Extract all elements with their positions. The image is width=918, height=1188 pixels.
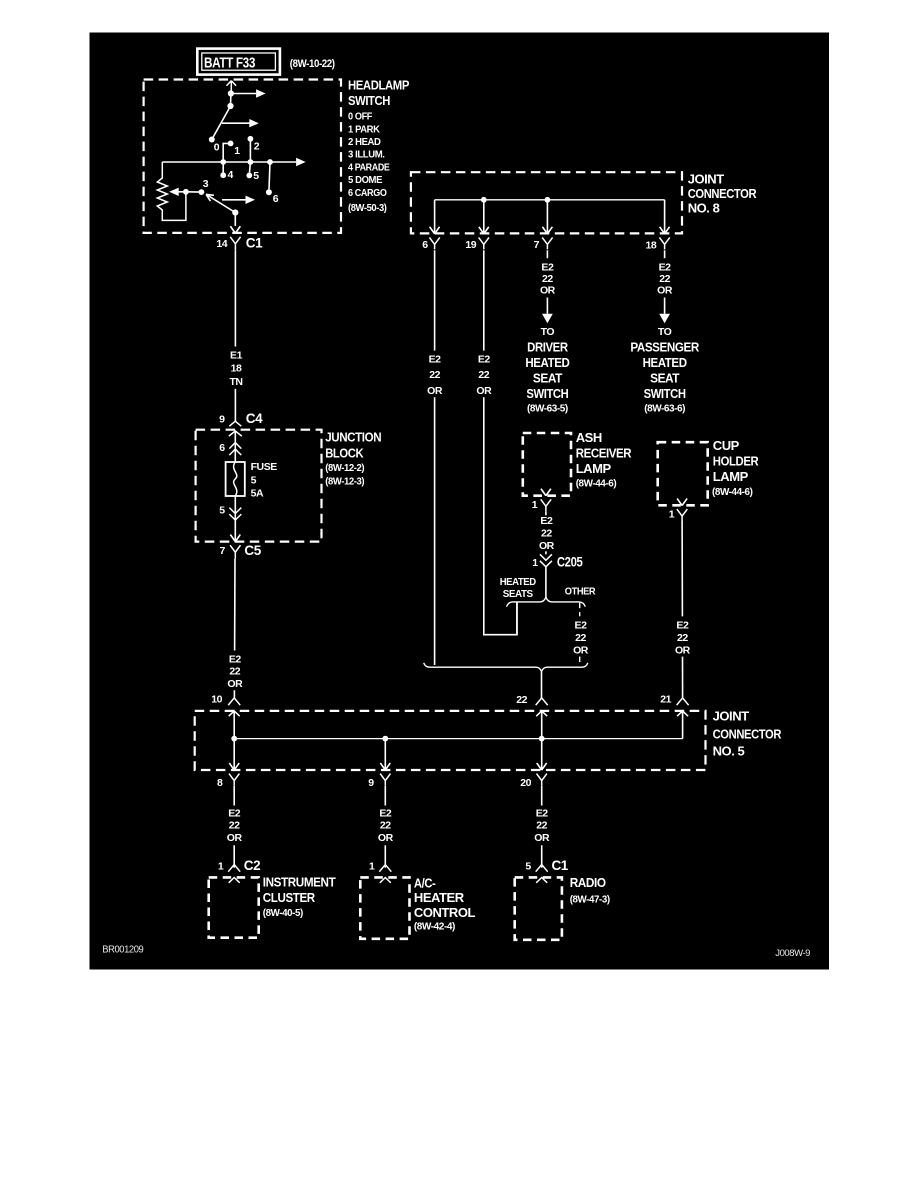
svg-text:INSTRUMENT: INSTRUMENT	[263, 875, 336, 890]
svg-text:10: 10	[211, 694, 222, 706]
svg-text:OR: OR	[476, 385, 492, 397]
svg-text:TO: TO	[541, 326, 555, 338]
svg-text:(8W-44-6): (8W-44-6)	[576, 477, 617, 489]
svg-text:22: 22	[542, 273, 553, 285]
wire E2 22 OR from JC8 toward passenger heated seat switch	[664, 250, 666, 258]
contact 3	[199, 189, 205, 195]
wire to component connector	[384, 845, 386, 867]
joint connector no.8 dashed box	[411, 172, 682, 233]
svg-text:CLUSTER: CLUSTER	[263, 890, 316, 905]
svg-text:HOLDER: HOLDER	[713, 454, 759, 469]
wire: switch output down to pin 14	[234, 213, 236, 227]
contact 6	[269, 162, 270, 189]
svg-text:E2: E2	[379, 807, 392, 819]
ash receiver lamp dashed box	[523, 433, 571, 496]
wiper pivot node	[227, 103, 233, 109]
svg-text:1 PARK: 1 PARK	[348, 123, 380, 135]
exit pin 19 of JC8	[479, 227, 489, 234]
exit pin 6 of JC8	[430, 227, 440, 234]
headlamp switch dashed box	[144, 80, 341, 233]
svg-text:22: 22	[575, 632, 586, 644]
collector brace to JC5 pin 22	[424, 663, 588, 672]
cup holder lamp dashed box	[658, 442, 708, 505]
svg-text:22: 22	[429, 369, 440, 381]
entry arrow into junction block	[229, 431, 242, 436]
svg-text:PASSENGER: PASSENGER	[630, 340, 699, 354]
svg-text:TN: TN	[229, 376, 242, 388]
svg-text:(8W-63-5): (8W-63-5)	[527, 403, 568, 414]
svg-text:OR: OR	[573, 644, 589, 656]
svg-text:BLOCK: BLOCK	[325, 445, 364, 460]
radio labels	[570, 875, 610, 906]
svg-text:C2: C2	[244, 858, 260, 873]
svg-text:C1: C1	[246, 236, 263, 251]
exit pin 8 of JC5	[229, 763, 239, 770]
radio dashed box	[515, 877, 562, 939]
svg-text:1: 1	[669, 509, 675, 521]
svg-text:RADIO: RADIO	[570, 875, 606, 890]
wire to component connector	[233, 845, 235, 867]
svg-text:CONNECTOR: CONNECTOR	[713, 726, 782, 741]
component connector pin 1	[228, 865, 240, 883]
svg-text:7: 7	[534, 239, 540, 251]
arrow to driver heated seat switch	[542, 314, 553, 324]
svg-text:6: 6	[219, 442, 225, 454]
svg-text:20: 20	[520, 777, 531, 789]
svg-text:3: 3	[203, 178, 209, 190]
svg-text:(8W-50-3): (8W-50-3)	[348, 202, 387, 214]
svg-text:9: 9	[219, 414, 225, 426]
svg-text:HEATER: HEATER	[414, 890, 465, 905]
svg-text:(8W-63-6): (8W-63-6)	[644, 403, 685, 414]
switch common node B+	[228, 90, 234, 96]
svg-text:SWITCH: SWITCH	[644, 387, 686, 401]
svg-text:E2: E2	[659, 262, 672, 274]
svg-text:1: 1	[532, 499, 538, 511]
svg-text:CUP: CUP	[713, 438, 740, 453]
wire inside JC5 left	[233, 711, 235, 769]
svg-text:LAMP: LAMP	[576, 461, 612, 476]
svg-text:5: 5	[219, 505, 225, 517]
svg-text:(8W-40-5): (8W-40-5)	[263, 907, 303, 919]
wire E2 22 OR from ash receiver lamp	[545, 511, 547, 515]
svg-text:22: 22	[541, 527, 552, 539]
wire continues to C4	[234, 389, 236, 422]
a/c heater control dashed box	[360, 877, 409, 938]
exit pin 9 of JC5	[381, 763, 391, 770]
cup holder lamp labels	[712, 438, 759, 498]
svg-text:OTHER: OTHER	[565, 585, 596, 597]
svg-text:(8W-42-4): (8W-42-4)	[414, 921, 455, 933]
svg-text:OR: OR	[657, 285, 673, 297]
connector C1 pin 14	[230, 226, 240, 250]
svg-text:8: 8	[217, 777, 223, 789]
svg-text:E2: E2	[676, 619, 689, 631]
svg-text:2 HEAD: 2 HEAD	[348, 136, 381, 148]
svg-text:LAMP: LAMP	[713, 469, 749, 484]
switch lower wiper arm with arrowhead toward contact 3	[206, 194, 235, 212]
connector C205 pin 1	[540, 554, 552, 567]
svg-text:22: 22	[478, 369, 489, 381]
arrow: feed branch to right	[231, 93, 256, 95]
arrow: wiper travel direction lower	[222, 199, 246, 201]
svg-text:E2: E2	[541, 262, 554, 274]
svg-text:1: 1	[234, 145, 240, 157]
svg-text:1: 1	[218, 861, 224, 873]
svg-text:5: 5	[525, 861, 531, 873]
junction dots on main bus	[220, 159, 226, 165]
svg-text:J008W-9: J008W-9	[775, 948, 810, 959]
phantom wire OTHER branch (dashed)	[579, 603, 581, 617]
exit pin 20 of JC5	[537, 763, 547, 770]
svg-text:18: 18	[231, 363, 242, 375]
wire E2 22 OR from cup holder lamp	[681, 521, 683, 616]
svg-text:HEATED: HEATED	[525, 356, 569, 370]
svg-text:OR: OR	[534, 832, 550, 844]
svg-text:22: 22	[229, 820, 240, 832]
connector C5 pin 7	[230, 535, 240, 559]
svg-text:18: 18	[646, 239, 657, 251]
svg-text:22: 22	[380, 820, 391, 832]
JC5 vertical pin 21 branch	[682, 711, 684, 739]
contact 5	[249, 162, 252, 172]
wire E2 22 OR below JC5 at x=541.7	[541, 786, 543, 806]
JC8 vertical drop at x=483.8	[483, 200, 485, 234]
svg-text:5A: 5A	[251, 487, 264, 499]
arrow to passenger heated seat switch	[659, 314, 670, 324]
instrument cluster labels	[263, 875, 336, 920]
wire E2 22 OR from JC8 pin 19	[483, 250, 485, 350]
fuse feed BATT F33 box	[197, 49, 280, 75]
svg-text:14: 14	[216, 238, 227, 250]
component connector pin 5	[536, 865, 548, 883]
contact 2 and wire to main bus	[248, 136, 254, 142]
svg-text:HEADLAMP: HEADLAMP	[348, 78, 410, 93]
svg-text:E2: E2	[478, 354, 491, 366]
exit pin 7 of JC8	[543, 227, 553, 234]
svg-text:5 DOME: 5 DOME	[348, 174, 382, 186]
svg-text:SEAT: SEAT	[533, 371, 563, 385]
svg-text:NO. 5: NO. 5	[713, 744, 745, 759]
contact 0	[209, 137, 215, 143]
a/c heater control labels	[414, 875, 476, 932]
wire: wiper node to contact 3	[186, 191, 202, 193]
svg-text:(8W-12-2): (8W-12-2)	[325, 462, 364, 474]
svg-text:OR: OR	[227, 832, 243, 844]
svg-text:5: 5	[253, 170, 259, 182]
exit pin 18 of JC8	[660, 227, 670, 234]
fuse 5 5A	[226, 462, 245, 496]
instrument cluster dashed box	[209, 877, 259, 937]
junction block pin 5	[229, 508, 241, 520]
svg-text:C205: C205	[557, 555, 583, 570]
svg-text:HEATED: HEATED	[500, 576, 537, 588]
svg-text:0 OFF: 0 OFF	[348, 111, 373, 123]
splice brace heated seats / other	[507, 597, 586, 607]
svg-text:4 PARADE: 4 PARADE	[348, 161, 390, 173]
svg-text:(8W-47-3): (8W-47-3)	[570, 893, 610, 905]
JC8 internal bus	[435, 199, 665, 201]
JC8 vertical drop at x=547.4	[546, 200, 548, 234]
svg-text:22: 22	[659, 273, 670, 285]
switch output node	[232, 209, 238, 215]
wire heated-seats branch	[516, 603, 518, 635]
svg-text:19: 19	[465, 239, 476, 251]
contact 4	[222, 162, 224, 172]
svg-text:HEATED: HEATED	[643, 356, 687, 370]
svg-text:SWITCH: SWITCH	[526, 387, 568, 401]
svg-text:OR: OR	[378, 832, 394, 844]
svg-text:BR001209: BR001209	[102, 945, 144, 956]
svg-text:(8W-10-22): (8W-10-22)	[290, 58, 335, 70]
svg-text:E2: E2	[540, 515, 553, 527]
svg-text:NO. 8: NO. 8	[688, 200, 720, 215]
junction block labels	[325, 429, 381, 487]
svg-text:3 ILLUM.: 3 ILLUM.	[348, 149, 385, 161]
wire E2 22 OR below JC5 at x=385.3	[384, 786, 386, 806]
svg-text:CONTROL: CONTROL	[414, 905, 476, 920]
svg-text:FUSE: FUSE	[251, 461, 278, 473]
svg-text:SEATS: SEATS	[503, 588, 533, 600]
svg-text:6 CARGO: 6 CARGO	[348, 187, 387, 199]
JC5 internal bus	[234, 738, 682, 740]
svg-text:C1: C1	[552, 858, 569, 873]
svg-text:22: 22	[677, 632, 688, 644]
svg-text:SEAT: SEAT	[650, 371, 680, 385]
svg-text:CONNECTOR: CONNECTOR	[688, 186, 757, 201]
wire into fuse	[234, 431, 236, 462]
JC5 vertical pin 9 branch	[384, 739, 386, 770]
svg-text:C4: C4	[246, 411, 263, 426]
wire E2 22 OR from JC8 pin 6 (long drop)	[434, 250, 436, 350]
svg-text:21: 21	[660, 694, 671, 706]
switch wiper arm (to position 0)	[212, 106, 231, 140]
wire from fuse to C5	[234, 496, 236, 542]
svg-text:22: 22	[516, 694, 527, 706]
contact 1 and wire to main bus	[228, 141, 234, 147]
svg-text:22: 22	[536, 820, 547, 832]
wire E1 18 TN from switch to junction block	[234, 250, 236, 346]
svg-text:E1: E1	[230, 350, 243, 362]
svg-text:1: 1	[532, 557, 538, 569]
svg-text:SWITCH: SWITCH	[348, 93, 390, 108]
arrow: wiper travel direction upper	[222, 122, 250, 124]
entry pin 10 of joint connector no.5	[228, 698, 240, 716]
svg-text:22: 22	[229, 666, 240, 678]
junction block pin 6	[229, 443, 241, 456]
svg-text:OR: OR	[540, 285, 556, 297]
wire C205 to splice	[545, 567, 547, 597]
svg-text:DRIVER: DRIVER	[527, 340, 568, 354]
diagram background panel	[90, 33, 830, 970]
wire: feed from BATT into switch, arrowhead up	[227, 81, 237, 94]
wire to component connector	[541, 845, 543, 867]
arrow: rheostat wiper pointing left	[176, 191, 186, 193]
svg-text:E2: E2	[229, 653, 242, 665]
wire splice to JC5 pin 22	[541, 672, 543, 698]
junction dots on JC8 bus	[481, 197, 487, 203]
svg-text:JUNCTION: JUNCTION	[325, 429, 381, 444]
svg-text:E2: E2	[536, 807, 549, 819]
connector C4 pin 9	[229, 421, 241, 426]
svg-text:A/C-: A/C-	[414, 875, 436, 890]
svg-text:TO: TO	[658, 326, 672, 338]
svg-text:0: 0	[214, 142, 220, 154]
JC8 vertical drop at x=664.6	[664, 200, 666, 234]
wire E2 22 OR below JC5 at x=234.2	[233, 786, 235, 806]
component connector pin 1	[379, 865, 391, 883]
fuse value labels	[251, 461, 278, 499]
wire pin 19 down and over to heated-seats splice	[484, 397, 517, 634]
switch main bus with output arrow	[162, 161, 296, 163]
wire resumes to joint connector 5	[233, 690, 235, 698]
svg-text:OR: OR	[539, 540, 555, 552]
svg-text:E2: E2	[429, 354, 442, 366]
svg-text:C5: C5	[244, 543, 261, 558]
svg-text:ASH: ASH	[576, 430, 602, 445]
svg-text:9: 9	[368, 777, 374, 789]
joint connector no.5 dashed box	[195, 711, 706, 770]
headlamp switch name and position legend	[348, 78, 410, 214]
svg-text:1: 1	[369, 861, 375, 873]
svg-text:4: 4	[228, 169, 234, 181]
svg-text:E2: E2	[228, 807, 241, 819]
svg-text:(8W-44-6): (8W-44-6)	[712, 486, 753, 498]
svg-text:6: 6	[273, 193, 279, 205]
svg-text:6: 6	[422, 239, 428, 251]
svg-text:(8W-12-3): (8W-12-3)	[325, 475, 364, 487]
svg-text:OR: OR	[427, 385, 443, 397]
joint connector no.8 labels	[688, 171, 757, 215]
svg-text:OR: OR	[675, 644, 691, 656]
svg-text:5: 5	[251, 475, 257, 487]
destination label DRIVER heated seat switch	[525, 326, 569, 414]
svg-text:JOINT: JOINT	[713, 709, 750, 724]
entry pin 21 of JC5	[677, 698, 689, 716]
svg-text:E2: E2	[575, 619, 588, 631]
JC8 vertical drop at x=434.6	[434, 200, 436, 234]
rheostat wiper node	[183, 189, 189, 195]
ash receiver lamp connector pin 1	[541, 489, 551, 496]
svg-text:RECEIVER: RECEIVER	[576, 446, 632, 461]
entry pin 22 of JC5	[536, 698, 548, 716]
cup holder lamp connector pin 1	[677, 499, 687, 506]
rheostat resistor (dimmer)	[157, 162, 186, 220]
svg-text:OR: OR	[227, 678, 243, 690]
svg-text:BATT F33: BATT F33	[204, 56, 255, 72]
svg-text:7: 7	[220, 545, 226, 557]
JC5 vertical pin 22 to 20	[541, 711, 543, 769]
junction dots on JC5 bus	[231, 736, 237, 742]
wire E2 22 OR from junction block down	[234, 559, 236, 651]
wire E2 22 OR from JC8 toward driver heated seat switch	[546, 250, 548, 258]
joint connector no.5 labels	[713, 709, 782, 759]
destination label PASSENGER heated seat switch	[630, 326, 699, 414]
svg-text:2: 2	[254, 141, 260, 153]
junction block dashed box	[196, 430, 322, 542]
svg-text:JOINT: JOINT	[688, 171, 725, 186]
wire: common to wiper pivot	[230, 94, 232, 107]
ash receiver lamp labels	[576, 430, 632, 489]
